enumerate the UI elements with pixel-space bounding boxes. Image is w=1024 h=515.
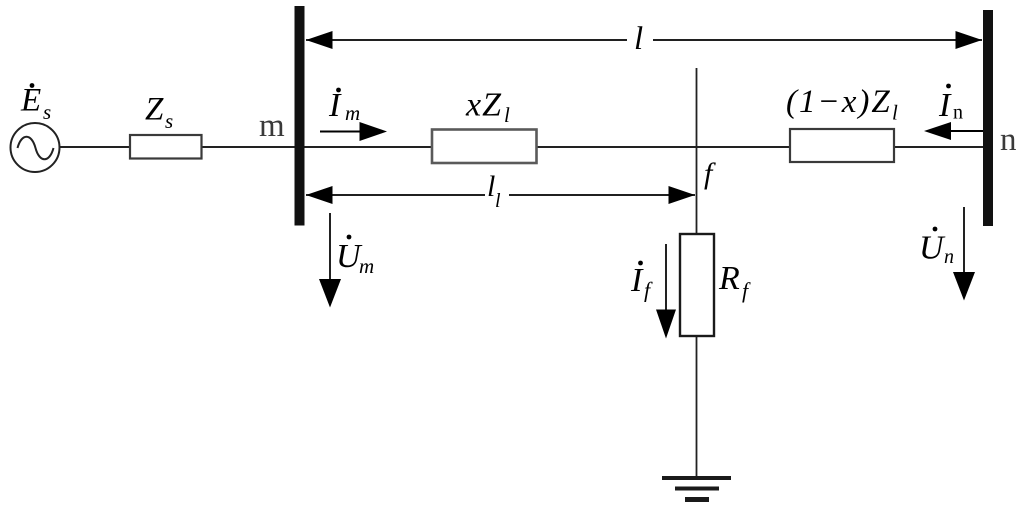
svg-text:l: l: [892, 101, 898, 125]
svg-text:l: l: [504, 103, 510, 127]
svg-text:I: I: [630, 262, 644, 299]
svg-text:R: R: [718, 260, 740, 297]
label Rf: [718, 260, 751, 303]
svg-text:Z: Z: [145, 92, 164, 128]
label Um: [336, 235, 374, 278]
svg-text:E: E: [20, 83, 41, 119]
svg-text:m: m: [259, 108, 285, 144]
svg-text:l: l: [495, 190, 501, 212]
current In arrow: [924, 122, 983, 140]
svg-text:(1−x)Z: (1−x)Z: [786, 84, 892, 120]
dimension l arrow: [306, 24, 982, 52]
label f node: [704, 157, 716, 190]
resistor Rf: [680, 234, 714, 336]
current Im arrow: [320, 122, 387, 141]
svg-text:l: l: [634, 21, 643, 57]
svg-text:m: m: [359, 254, 374, 278]
label m: [259, 108, 285, 144]
svg-text:s: s: [43, 100, 51, 124]
bus n: [983, 10, 993, 226]
label Es: [20, 83, 51, 125]
svg-text:I: I: [328, 87, 342, 124]
label xZl: [465, 87, 510, 128]
current If arrow: [656, 244, 676, 339]
label xl: [487, 170, 501, 212]
label In: [938, 84, 963, 124]
svg-text:U: U: [919, 230, 946, 267]
source Es: [11, 123, 60, 172]
impedance Zs: [130, 135, 202, 159]
voltage Um arrow: [319, 213, 341, 308]
label l: [634, 21, 643, 57]
svg-text:n: n: [953, 102, 963, 124]
svg-text:m: m: [345, 101, 360, 125]
label Im: [328, 87, 360, 125]
impedance (1-x)Zl: [790, 129, 894, 162]
label If: [630, 261, 653, 303]
label Un: [919, 227, 954, 268]
label (1-x)Zl: [786, 84, 898, 125]
svg-text:s: s: [165, 109, 173, 133]
svg-text:I: I: [938, 87, 952, 124]
svg-text:n: n: [944, 246, 954, 268]
wire fault branch lower: [696, 336, 698, 478]
wire main horizontal: [59, 146, 983, 148]
label n: [1000, 122, 1017, 158]
impedance xZl: [432, 130, 537, 164]
svg-text:n: n: [1000, 122, 1017, 158]
bus m: [295, 6, 305, 226]
label Zs: [145, 92, 173, 134]
ground: [662, 478, 731, 500]
dimension xl arrow: [306, 176, 695, 204]
svg-text:xZ: xZ: [465, 87, 502, 124]
wire fault branch upper: [696, 68, 698, 234]
voltage Un arrow: [953, 207, 975, 301]
